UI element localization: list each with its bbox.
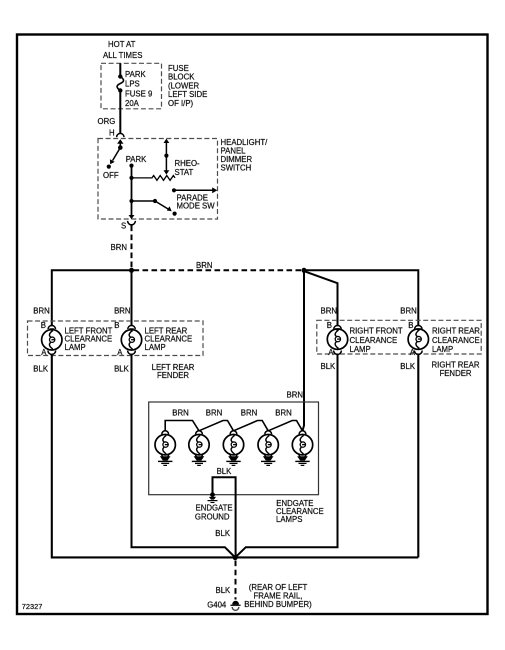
label ENDGATE CLEARANCE LAMPS: [276, 499, 324, 524]
wire BRN to right rear lamp: [304, 270, 418, 326]
svg-text:OF I/P): OF I/P): [168, 99, 194, 108]
svg-text:BEHIND BUMPER): BEHIND BUMPER): [244, 600, 312, 609]
wire BRN to left rear lamp: [131, 270, 133, 326]
wire fuse feed: [119, 63, 121, 76]
svg-text:FUSE 9: FUSE 9: [125, 89, 152, 98]
svg-text:RIGHT REAR: RIGHT REAR: [432, 326, 480, 335]
svg-text:(LOWER: (LOWER: [168, 81, 200, 90]
svg-text:BLK: BLK: [215, 529, 231, 538]
ground endgate lamp 3: [226, 456, 240, 465]
wire BLK endgate ground jumper: [213, 467, 236, 557]
right clearance lamps box: [317, 320, 481, 354]
svg-text:BRN: BRN: [33, 306, 49, 315]
wire BLK left front to ground rail: [52, 354, 419, 557]
svg-text:A: A: [410, 348, 416, 357]
svg-text:BRN: BRN: [287, 391, 303, 400]
connector H: [109, 128, 124, 147]
endgate lamp 1: [155, 431, 175, 458]
endgate lamp 3: [223, 431, 243, 458]
svg-text:LAMPS: LAMPS: [276, 515, 302, 524]
svg-text:BRN: BRN: [114, 306, 130, 315]
wire BLK left rear to ground splice: [132, 354, 236, 557]
fuse PARK LPS FUSE 9 20A: [117, 70, 152, 108]
svg-text:BLK: BLK: [114, 365, 130, 374]
label FUSE BLOCK (LOWER LEFT SIDE OF I/P): [168, 64, 207, 108]
ground endgate lamp 2: [192, 456, 206, 465]
svg-text:ENDGATE: ENDGATE: [196, 503, 233, 512]
endgate ground splice: [208, 492, 218, 502]
svg-text:FENDER: FENDER: [157, 371, 189, 380]
label HOT AT ALL TIMES: [103, 40, 142, 60]
svg-text:G404: G404: [207, 601, 227, 610]
svg-text:BRN: BRN: [172, 409, 188, 418]
wire BRN to endgate lamps: [287, 270, 305, 430]
svg-text:H: H: [109, 128, 115, 137]
svg-text:ORG: ORG: [98, 117, 116, 126]
svg-text:FENDER: FENDER: [439, 369, 471, 378]
parade mode switch blade: [129, 199, 176, 216]
svg-text:BLK: BLK: [216, 586, 232, 595]
svg-text:BLK: BLK: [217, 467, 233, 476]
svg-text:CLEARANCE: CLEARANCE: [432, 336, 480, 345]
splice right: [302, 268, 307, 273]
svg-text:BRN: BRN: [111, 243, 127, 252]
wire BRN to right front lamp: [305, 271, 338, 326]
svg-text:PARK: PARK: [125, 70, 146, 79]
wire BRN (dashed) between splices: [134, 261, 304, 270]
svg-text:GROUND: GROUND: [195, 512, 230, 521]
svg-text:20A: 20A: [125, 99, 140, 108]
fuse block box: [101, 63, 162, 109]
svg-text:PARK: PARK: [126, 155, 147, 164]
svg-text:B: B: [41, 321, 46, 330]
svg-text:B: B: [408, 321, 413, 330]
svg-text:LAMP: LAMP: [65, 343, 86, 352]
label PARADE MODE SW: [177, 194, 216, 211]
label RIGHT REAR FENDER: [432, 360, 480, 378]
splice S408 left: [129, 268, 134, 273]
label ENDGATE GROUND: [195, 503, 233, 521]
svg-text:FUSE: FUSE: [168, 64, 189, 73]
svg-text:STAT: STAT: [175, 168, 194, 177]
label LEFT REAR FENDER: [152, 363, 195, 380]
rheostat wiper (double arrow): [164, 139, 170, 175]
wire PARK to S: [131, 166, 133, 216]
contact PARK: [126, 155, 147, 168]
lamp RIGHT REAR CLEARANCE LAMP: [408, 321, 480, 357]
endgate lamp 2: [189, 431, 209, 458]
contact OFF: [103, 165, 119, 180]
endgate lamp 5: [292, 431, 312, 458]
headlight panel dimmer switch box: [98, 139, 218, 220]
svg-text:LEFT SIDE: LEFT SIDE: [168, 90, 207, 99]
label RHEOSTAT: [175, 159, 201, 177]
lamp LEFT FRONT CLEARANCE LAMP: [41, 321, 113, 357]
rheostat resistor: [129, 176, 175, 181]
svg-text:BRN: BRN: [196, 261, 212, 270]
svg-text:BLOCK: BLOCK: [168, 73, 195, 82]
svg-text:LAMP: LAMP: [350, 345, 371, 354]
wire BRN (dashed) S to splice: [111, 226, 132, 270]
lamp RIGHT FRONT CLEARANCE LAMP: [327, 321, 403, 357]
svg-text:S: S: [121, 221, 126, 230]
endgate lamp 4: [258, 431, 278, 458]
wire BRN endgate lamp chain: [165, 421, 302, 432]
svg-text:BRN: BRN: [321, 307, 337, 316]
node H common: [118, 145, 123, 150]
svg-text:B: B: [327, 321, 332, 330]
ground endgate lamp 5: [295, 456, 309, 465]
svg-text:RIGHT FRONT: RIGHT FRONT: [350, 326, 403, 335]
svg-text:CLEARANCE: CLEARANCE: [350, 336, 398, 345]
svg-text:BRN: BRN: [241, 409, 257, 418]
svg-text:BLK: BLK: [400, 362, 416, 371]
svg-text:B: B: [114, 321, 119, 330]
svg-text:72327: 72327: [22, 602, 43, 611]
svg-text:BRN: BRN: [275, 409, 291, 418]
svg-text:MODE SW: MODE SW: [177, 201, 216, 210]
endgate clearance lamps box: [149, 402, 319, 495]
svg-text:BLK: BLK: [321, 362, 337, 371]
ground endgate lamp 4: [261, 456, 275, 465]
svg-text:HOT AT: HOT AT: [108, 40, 136, 49]
wire BLK right front to ground splice: [235, 354, 337, 557]
svg-text:A: A: [41, 348, 47, 357]
svg-text:A: A: [117, 348, 123, 357]
wire BRN to left front lamp: [52, 270, 132, 326]
wire BLK right rear to ground rail: [417, 354, 419, 557]
lamp LEFT REAR CLEARANCE LAMP: [114, 321, 192, 357]
svg-text:LAMP: LAMP: [145, 343, 166, 352]
connector S: [121, 215, 135, 230]
svg-text:BLK: BLK: [33, 365, 49, 374]
wire ORG: [98, 91, 121, 134]
svg-text:ALL TIMES: ALL TIMES: [103, 51, 142, 60]
label (REAR OF LEFT FRAME RAIL, BEHIND BUMPER): [244, 583, 312, 609]
svg-text:LPS: LPS: [125, 80, 140, 89]
svg-text:OFF: OFF: [103, 171, 119, 180]
svg-text:BRN: BRN: [400, 307, 416, 316]
svg-text:SWITCH: SWITCH: [221, 163, 252, 172]
svg-text:A: A: [328, 348, 334, 357]
ground endgate lamp 1: [158, 456, 172, 465]
ground splice G404 junction: [233, 555, 238, 560]
ground G404: [207, 601, 240, 611]
svg-text:LAMP: LAMP: [432, 345, 453, 354]
svg-text:BRN: BRN: [206, 409, 222, 418]
label HEADLIGHT/PANEL DIMMER SWITCH: [221, 138, 269, 173]
parade mode output arrow: [172, 187, 217, 193]
wire BLK (dashed) to G404: [216, 561, 236, 600]
switch blade (headlight switch, OFF position): [110, 148, 120, 165]
left clearance lamps box: [28, 321, 204, 356]
